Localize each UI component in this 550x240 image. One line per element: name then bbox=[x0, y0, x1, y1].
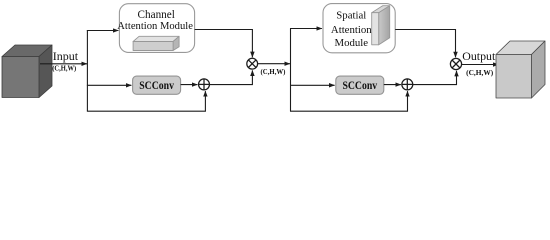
svg-text:Output: Output bbox=[462, 49, 496, 63]
box Spatial Attention Module bbox=[323, 4, 395, 53]
box SCConv 1 bbox=[133, 76, 181, 94]
icon channel attention slab bbox=[133, 36, 179, 50]
wire multiplier1 output arrow bbox=[258, 63, 290, 65]
wire adder1 to multiplier1 bbox=[210, 70, 253, 84]
svg-text:Attention Module: Attention Module bbox=[117, 21, 193, 32]
output tensor cube bbox=[496, 41, 545, 98]
wire SCConv1 to adder 1 bbox=[181, 84, 198, 86]
wire skip connection 2 bbox=[290, 91, 408, 111]
wire input arrow bbox=[40, 63, 87, 65]
svg-text:Input: Input bbox=[53, 49, 79, 63]
svg-text:(C,H,W): (C,H,W) bbox=[466, 68, 494, 77]
multiplier circle-times 2 bbox=[450, 58, 461, 69]
wire output arrow bbox=[462, 64, 499, 66]
adder circle-plus 1 bbox=[199, 79, 210, 90]
wire to Spatial Attention Module bbox=[290, 28, 322, 30]
wire skip connection 1 bbox=[87, 91, 205, 111]
wire split vertical 2 bbox=[290, 29, 292, 112]
svg-text:Attention: Attention bbox=[331, 24, 372, 36]
wire SCConv1 branch arrow bbox=[87, 84, 131, 86]
wire split vertical 1 bbox=[86, 30, 88, 111]
wire channel module output into multiplier 1 bbox=[195, 30, 253, 58]
multiplier circle-times 1 bbox=[247, 58, 258, 69]
adder circle-plus 2 bbox=[402, 79, 413, 90]
wire SCConv2 branch arrow bbox=[290, 84, 335, 86]
wire to Channel Attention Module bbox=[87, 30, 119, 32]
svg-text:Spatial: Spatial bbox=[336, 10, 366, 22]
box SCConv 2 bbox=[336, 76, 384, 94]
wire spatial module output into multiplier 2 bbox=[395, 30, 455, 58]
box Channel Attention Module bbox=[117, 4, 194, 53]
input tensor cube bbox=[2, 45, 52, 98]
svg-text:(C,H,W): (C,H,W) bbox=[52, 64, 76, 73]
icon spatial attention slab bbox=[372, 6, 390, 45]
wire SCConv2 to adder 2 bbox=[384, 84, 401, 86]
svg-text:(C,H,W): (C,H,W) bbox=[261, 68, 286, 76]
svg-text:Module: Module bbox=[335, 37, 369, 49]
wire adder2 to multiplier2 bbox=[413, 71, 457, 85]
svg-text:SCConv: SCConv bbox=[139, 78, 174, 92]
svg-text:Channel: Channel bbox=[138, 9, 175, 21]
svg-text:SCConv: SCConv bbox=[342, 78, 377, 92]
